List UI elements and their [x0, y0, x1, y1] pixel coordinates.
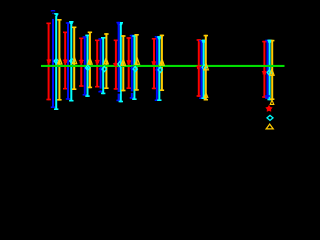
cyan open diamond marker C5	[118, 61, 122, 66]
error bar yellow C2	[72, 27, 76, 91]
error bar cyan C3	[85, 35, 89, 97]
blue cross marker C9	[265, 94, 270, 99]
cyan open diamond marker C2	[70, 58, 74, 63]
error bar blue C2	[66, 22, 70, 100]
red filled star marker C1	[46, 58, 51, 63]
error bar red C8	[197, 39, 201, 97]
cyan block marker at bar top	[55, 13, 58, 16]
yellow open triangle marker C2	[72, 58, 76, 64]
red filled star marker legend	[265, 105, 272, 112]
black overlap dashes on blue bars	[52, 11, 55, 12]
error bar blue C4	[98, 38, 102, 92]
yellow open triangle marker C4	[104, 58, 108, 64]
yellow open triangle marker C5	[121, 59, 125, 65]
error bar cyan C1	[54, 13, 58, 110]
error bar red C7	[152, 38, 156, 89]
yellow open triangle marker C1	[58, 58, 62, 64]
yellow open triangle marker C8	[204, 64, 208, 70]
cyan block marker at bar top	[158, 36, 161, 39]
cyan open diamond marker legend	[267, 115, 273, 120]
cyan open diamond marker C9	[267, 70, 271, 75]
error bar blue C7	[155, 36, 159, 101]
small yellow triangle marker C8 low	[204, 93, 208, 97]
error bar red C2	[63, 32, 67, 90]
error bar yellow C7	[160, 35, 164, 91]
red filled star marker C6	[126, 59, 131, 64]
red filled star marker C4	[95, 58, 100, 63]
black star marker on C1 blue bar	[50, 13, 55, 18]
red filled star marker C7	[151, 60, 156, 65]
blue cross marker C7	[155, 68, 159, 72]
error bar cyan C5	[119, 22, 123, 102]
error bar yellow C5	[121, 35, 125, 91]
yellow open triangle marker legend	[266, 124, 273, 129]
blue block marker at bar top	[117, 22, 120, 25]
cyan open diamond marker C8	[202, 65, 206, 70]
error bar cyan C6	[132, 35, 136, 100]
error bar blue C1	[51, 10, 55, 108]
cyan block marker at bar top	[268, 40, 271, 43]
cyan open diamond marker C1	[54, 58, 58, 63]
error bar red C3	[79, 38, 83, 87]
error bar yellow C9	[270, 40, 274, 100]
error bar cyan C4	[101, 37, 105, 94]
error bar red C9	[262, 41, 266, 98]
error bar cyan C9	[267, 40, 271, 101]
cyan block marker at bar top	[70, 21, 73, 24]
error bar red C5	[114, 40, 118, 90]
yellow open triangle marker C9	[270, 69, 274, 75]
error bar yellow C3	[88, 32, 92, 89]
cyan block marker at bar top	[202, 40, 205, 43]
yellow open triangle marker C3	[88, 58, 92, 64]
error bar red C1	[46, 23, 50, 101]
red filled star marker C2	[63, 58, 68, 63]
red filled star marker C3	[79, 58, 84, 63]
error bar cyan C8	[201, 40, 205, 99]
small yellow triangle marker C9 low	[270, 100, 274, 104]
green zero line	[41, 65, 285, 67]
error bar blue C8	[199, 40, 203, 99]
error bar cyan C2	[69, 21, 73, 102]
error bar red C4	[95, 40, 99, 88]
error bar yellow C8	[204, 35, 208, 101]
red filled star marker C5	[113, 62, 118, 67]
error bar yellow C6	[134, 34, 138, 91]
error bar blue C9	[265, 40, 269, 99]
cyan open diamond marker C4	[102, 66, 106, 71]
cyan open diamond marker C6	[133, 66, 137, 71]
blue cross marker C4	[99, 67, 103, 71]
error bar yellow C4	[104, 33, 108, 89]
red filled star marker C8	[196, 64, 201, 69]
error bar blue C6	[130, 35, 134, 99]
error bar cyan C7	[157, 36, 161, 101]
yellow open triangle marker C7	[160, 59, 164, 65]
red filled star marker C9	[262, 70, 267, 75]
error bar blue C5	[116, 22, 120, 101]
blue cross marker C6	[130, 66, 134, 70]
cyan block marker at bar top	[119, 22, 122, 25]
error bar red C6	[127, 37, 131, 89]
error bar blue C3	[83, 36, 87, 95]
yellow open triangle marker C6	[135, 58, 139, 64]
cyan open diamond marker C3	[86, 65, 90, 70]
error bar yellow C1	[57, 19, 61, 101]
blue cross marker C8	[200, 66, 204, 70]
cyan open diamond marker C7	[158, 67, 162, 72]
